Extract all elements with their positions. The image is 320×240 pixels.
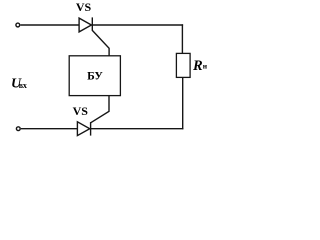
svg-text:VS: VS [76,0,92,14]
wire top: terminal to thyristor anode [20,24,79,26]
wire right vertical to resistor top [181,24,183,53]
gate wire top thyristor to block BU [92,30,109,55]
wire top: thyristor cathode to right corner [92,24,183,26]
gate wire bottom thyristor to block BU [91,96,109,123]
wire bottom: right corner to thyristor cathode [91,128,184,130]
thyristor VS (bottom) triangle [77,122,89,136]
thyristor VS (bottom) cathode bar [90,122,92,136]
svg-text:R: R [192,58,203,74]
terminal top-left [16,23,20,27]
wire bottom: thyristor anode to terminal [21,128,78,130]
svg-text:вх: вх [19,81,27,90]
svg-text:VS: VS [73,104,89,118]
terminal bottom-left [16,127,20,131]
svg-text:БУ: БУ [87,71,103,83]
thyristor VS (top) cathode bar [91,17,93,30]
wire resistor bottom to bottom-right corner [182,77,184,129]
svg-text:н: н [203,62,208,71]
resistor Rн body [176,53,190,77]
thyristor VS (top) triangle [79,18,91,32]
control unit block BU [69,56,120,96]
